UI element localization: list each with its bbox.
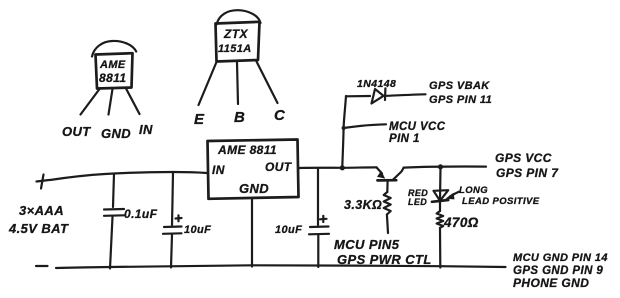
junction node MCU VCC stub (342, 126, 346, 130)
svg-text:LEAD POSITIVE: LEAD POSITIVE (462, 196, 540, 207)
package pin E leg (199, 62, 217, 105)
package drawing Q-ZTX1151A body (216, 22, 260, 62)
label LONG (459, 185, 488, 196)
value label 0.1uF (124, 207, 158, 221)
net label GPS VBAK (429, 80, 490, 92)
capacitor C2 plates (163, 227, 182, 234)
LED D2 triangle (434, 190, 449, 201)
svg-text:0.1uF: 0.1uF (124, 207, 158, 221)
svg-text:8811: 8811 (99, 71, 126, 85)
label LED (408, 197, 427, 207)
package pin C leg (257, 62, 278, 104)
wire top rail battery to regulator IN (50, 172, 207, 180)
wire LED to R2 (439, 201, 441, 211)
package drawing U-AME8811 body (96, 53, 133, 88)
wire R1 to MCU PIN5 (387, 215, 388, 234)
wire diode cathode to GPS VBAK (387, 94, 426, 96)
svg-text:1N4148: 1N4148 (357, 78, 396, 90)
junction node VCC branch (340, 165, 345, 170)
svg-text:GPS VCC: GPS VCC (495, 151, 552, 165)
net label MCU PIN5 (334, 237, 400, 252)
svg-text:C: C (274, 107, 286, 124)
svg-text:GPS PIN 11: GPS PIN 11 (429, 94, 492, 106)
capacitor C2 top stem (172, 172, 173, 225)
capacitor C3 bottom stem (317, 235, 319, 267)
pin label GND (101, 126, 131, 141)
package drawing Q-ZTX1151A dome (217, 10, 261, 24)
wire vertical VCC branch (342, 96, 346, 167)
svg-text:4.5V BAT: 4.5V BAT (8, 221, 69, 236)
svg-text:GND: GND (101, 126, 131, 141)
regulator pin label GND (239, 181, 269, 196)
capacitor C1 plates (104, 209, 124, 216)
svg-text:B: B (234, 109, 245, 126)
pin label B (234, 109, 245, 126)
package pin IN leg (126, 89, 140, 115)
net label MCU VCC (389, 121, 446, 133)
regulator U1 box (208, 140, 299, 199)
battery label 4.5V BAT (8, 221, 69, 236)
capacitor C1 bottom stem (110, 217, 113, 269)
svg-text:IN: IN (212, 163, 225, 177)
wire diode anode (346, 95, 370, 98)
svg-text:PHONE GND: PHONE GND (513, 276, 589, 290)
package label AME (99, 59, 126, 71)
package label ZTX (223, 27, 248, 41)
value label 470ohm (443, 215, 479, 230)
svg-text:LONG: LONG (459, 185, 488, 196)
junction node LED branch (438, 164, 443, 169)
package label 1151A (218, 43, 252, 55)
package drawing U-AME8811 dome (92, 41, 136, 57)
svg-text:3×AAA: 3×AAA (19, 203, 64, 218)
regulator pin label OUT (265, 160, 293, 174)
net label GPS VCC (495, 151, 552, 165)
LED D2 cathode bar (432, 200, 448, 202)
package pin OUT leg (81, 89, 100, 115)
net label GPS PIN 7 (496, 166, 559, 180)
wire ground rail (56, 265, 506, 268)
capacitor C3 top stem (317, 168, 319, 225)
label RED (408, 188, 428, 198)
capacitor C3 plates (309, 227, 329, 235)
svg-text:AME: AME (99, 59, 126, 71)
wire rail to GPS VCC (404, 167, 486, 168)
svg-text:470Ω: 470Ω (443, 215, 479, 230)
value label 3.3kohm (344, 198, 382, 212)
battery label 3xAAA (19, 203, 64, 218)
net label PIN 1 (389, 133, 420, 145)
svg-text:GND: GND (239, 181, 269, 196)
svg-text:10uF: 10uF (275, 224, 302, 236)
svg-text:AME 8811: AME 8811 (217, 143, 277, 157)
capacitor C3 polarity plus (320, 216, 327, 222)
resistor R1 3.3k zigzag (384, 192, 391, 215)
svg-text:MCU PIN5: MCU PIN5 (334, 237, 400, 252)
pin label E (194, 111, 205, 128)
regulator label AME 8811 (217, 143, 277, 157)
value label 1N4148 (357, 78, 396, 90)
wire regulator GND stem (251, 199, 253, 267)
svg-text:3.3KΩ: 3.3KΩ (344, 198, 382, 212)
net label PHONE GND (513, 276, 589, 290)
capacitor C2 polarity plus (176, 215, 182, 221)
capacitor C2 bottom stem (171, 235, 172, 268)
transistor Q1 base bar (378, 179, 397, 182)
battery negative terminal (36, 265, 48, 267)
wire LED branch stem (439, 167, 442, 201)
svg-text:OUT: OUT (265, 160, 293, 174)
package label 8811 (99, 71, 126, 85)
svg-text:OUT: OUT (62, 124, 91, 139)
pin label C (274, 107, 286, 124)
svg-text:LED: LED (408, 197, 427, 207)
svg-text:1151A: 1151A (218, 43, 252, 55)
wire R2 to ground rail (439, 228, 441, 268)
value label 10uF second (275, 224, 302, 236)
label LEAD POSITIVE (462, 196, 540, 207)
wire Q1 base stem (386, 181, 389, 192)
transistor Q1 collector wire (393, 168, 404, 180)
svg-text:GPS VBAK: GPS VBAK (429, 80, 490, 92)
net label GPS PIN 11 (429, 94, 492, 106)
svg-text:ZTX: ZTX (223, 27, 248, 41)
transistor Q1 emitter arrowhead (377, 171, 385, 179)
value label 10uF first (184, 224, 211, 236)
package pin B leg (237, 63, 238, 105)
pin label OUT (62, 124, 91, 139)
capacitor C1 top stem (113, 174, 114, 207)
net label GPS GND PIN 9 (513, 265, 603, 277)
long lead arrow (445, 192, 459, 200)
svg-text:E: E (194, 111, 205, 128)
svg-text:MCU GND PIN 14: MCU GND PIN 14 (513, 252, 608, 264)
battery positive terminal (37, 175, 50, 189)
transistor Q1 emitter wire (377, 167, 383, 173)
package pin GND leg (109, 89, 113, 115)
regulator pin label IN (212, 163, 225, 177)
net label MCU GND PIN 14 (513, 252, 608, 264)
svg-text:MCU VCC: MCU VCC (389, 121, 446, 133)
resistor R2 470 zigzag (437, 211, 444, 228)
net label GPS PWR CTL (337, 252, 432, 267)
svg-text:IN: IN (139, 122, 153, 137)
diode D1 1N4148 (372, 88, 386, 103)
wire MCU VCC stub (344, 124, 386, 128)
svg-text:GPS PIN 7: GPS PIN 7 (496, 166, 559, 180)
wire regulator OUT rail (299, 166, 377, 169)
svg-text:10uF: 10uF (184, 224, 211, 236)
svg-text:PIN 1: PIN 1 (389, 133, 420, 145)
pin label IN (139, 122, 153, 137)
